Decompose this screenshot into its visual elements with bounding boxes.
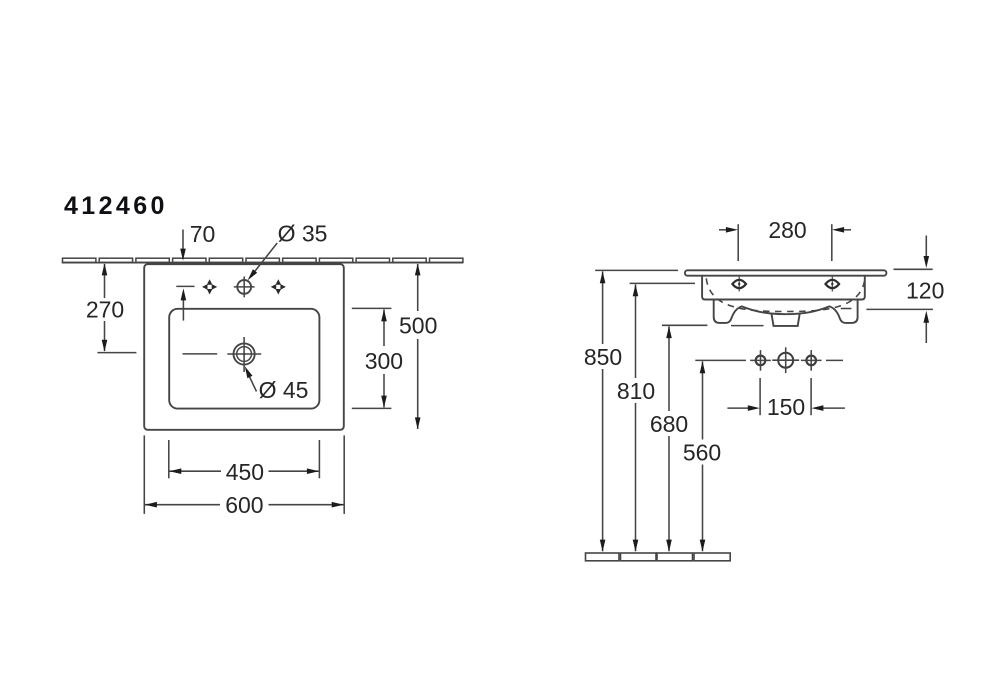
dimension 450 extension lines bbox=[169, 440, 320, 478]
wall bracket hole centre bbox=[772, 347, 799, 373]
svg-text:Ø 45: Ø 45 bbox=[259, 377, 309, 403]
svg-text:280: 280 bbox=[768, 217, 806, 243]
dimension 150 extension lines bbox=[760, 378, 811, 415]
dimension 850 line bbox=[600, 271, 606, 551]
svg-text:560: 560 bbox=[683, 439, 721, 465]
svg-text:680: 680 bbox=[650, 411, 688, 437]
dimension 450 line bbox=[169, 468, 319, 474]
svg-text:70: 70 bbox=[190, 221, 216, 247]
dimension 500 line bbox=[415, 263, 421, 429]
centre waste tab bbox=[772, 314, 800, 326]
legs and apron bottom profile bbox=[714, 300, 858, 323]
dimension 150 arrows bbox=[727, 405, 845, 411]
drain centreline tick bbox=[183, 353, 218, 355]
dimension 810 extension line bbox=[630, 282, 695, 284]
wall bracket hole left bbox=[750, 350, 771, 371]
svg-text:450: 450 bbox=[226, 459, 264, 485]
dimension 300 extension lines bbox=[352, 308, 392, 408]
washbasin rim slab (side view) bbox=[685, 270, 887, 275]
svg-text:412460: 412460 bbox=[64, 192, 168, 220]
fixing hole left (side view) bbox=[732, 277, 746, 292]
washbasin outer outline (top view) bbox=[144, 264, 344, 430]
wall section band (tiled) top view bbox=[62, 258, 463, 262]
dimension 120 arrows bbox=[924, 236, 930, 344]
floor band (side view) bbox=[586, 553, 731, 561]
hole centreline right tick bbox=[826, 359, 843, 361]
dimension 560 line bbox=[700, 361, 706, 551]
dimension 600 line bbox=[145, 502, 344, 508]
hidden bowl contour (dashed) bbox=[706, 278, 865, 311]
dimension 300 line bbox=[381, 309, 387, 407]
svg-text:500: 500 bbox=[399, 312, 437, 338]
svg-text:120: 120 bbox=[906, 277, 944, 303]
alternate tap hole mark right bbox=[271, 279, 286, 294]
drain hole (Oslash 45) double circle with crosshair bbox=[227, 337, 261, 372]
wall bracket hole right bbox=[801, 350, 822, 371]
svg-text:600: 600 bbox=[225, 492, 263, 518]
tap hole circle (Oslash 35) bbox=[234, 277, 255, 298]
dimension 680 line bbox=[666, 326, 672, 551]
alternate tap hole mark left bbox=[202, 279, 217, 294]
svg-text:270: 270 bbox=[86, 297, 124, 323]
dimension 280 arrows bbox=[719, 227, 851, 233]
dimension 270 line bbox=[97, 263, 136, 352]
dimension 560 extension line bbox=[695, 359, 746, 361]
leader for tap hole bbox=[248, 243, 278, 280]
dimension 810 line bbox=[633, 284, 639, 551]
dimension 600 extension lines bbox=[144, 435, 344, 514]
dimension 70 arrow above wall bbox=[180, 230, 186, 261]
dimension 280 extension lines bbox=[738, 224, 832, 261]
fixing hole right (side view) bbox=[826, 277, 840, 292]
dimension 120 extension lines bbox=[841, 269, 933, 309]
svg-text:810: 810 bbox=[617, 378, 655, 404]
svg-text:300: 300 bbox=[365, 348, 403, 374]
svg-text:Ø 35: Ø 35 bbox=[278, 220, 328, 246]
svg-text:850: 850 bbox=[584, 344, 622, 370]
leader for drain hole bbox=[245, 366, 257, 391]
svg-text:150: 150 bbox=[767, 394, 805, 420]
dimension 850 extension line bbox=[595, 269, 678, 271]
inner bowl outline bbox=[169, 309, 319, 409]
washbasin body (side view) bbox=[702, 276, 865, 300]
dimension 70 tick and lower arrow bbox=[176, 286, 194, 320]
dimension 680 extension line bbox=[662, 324, 764, 326]
